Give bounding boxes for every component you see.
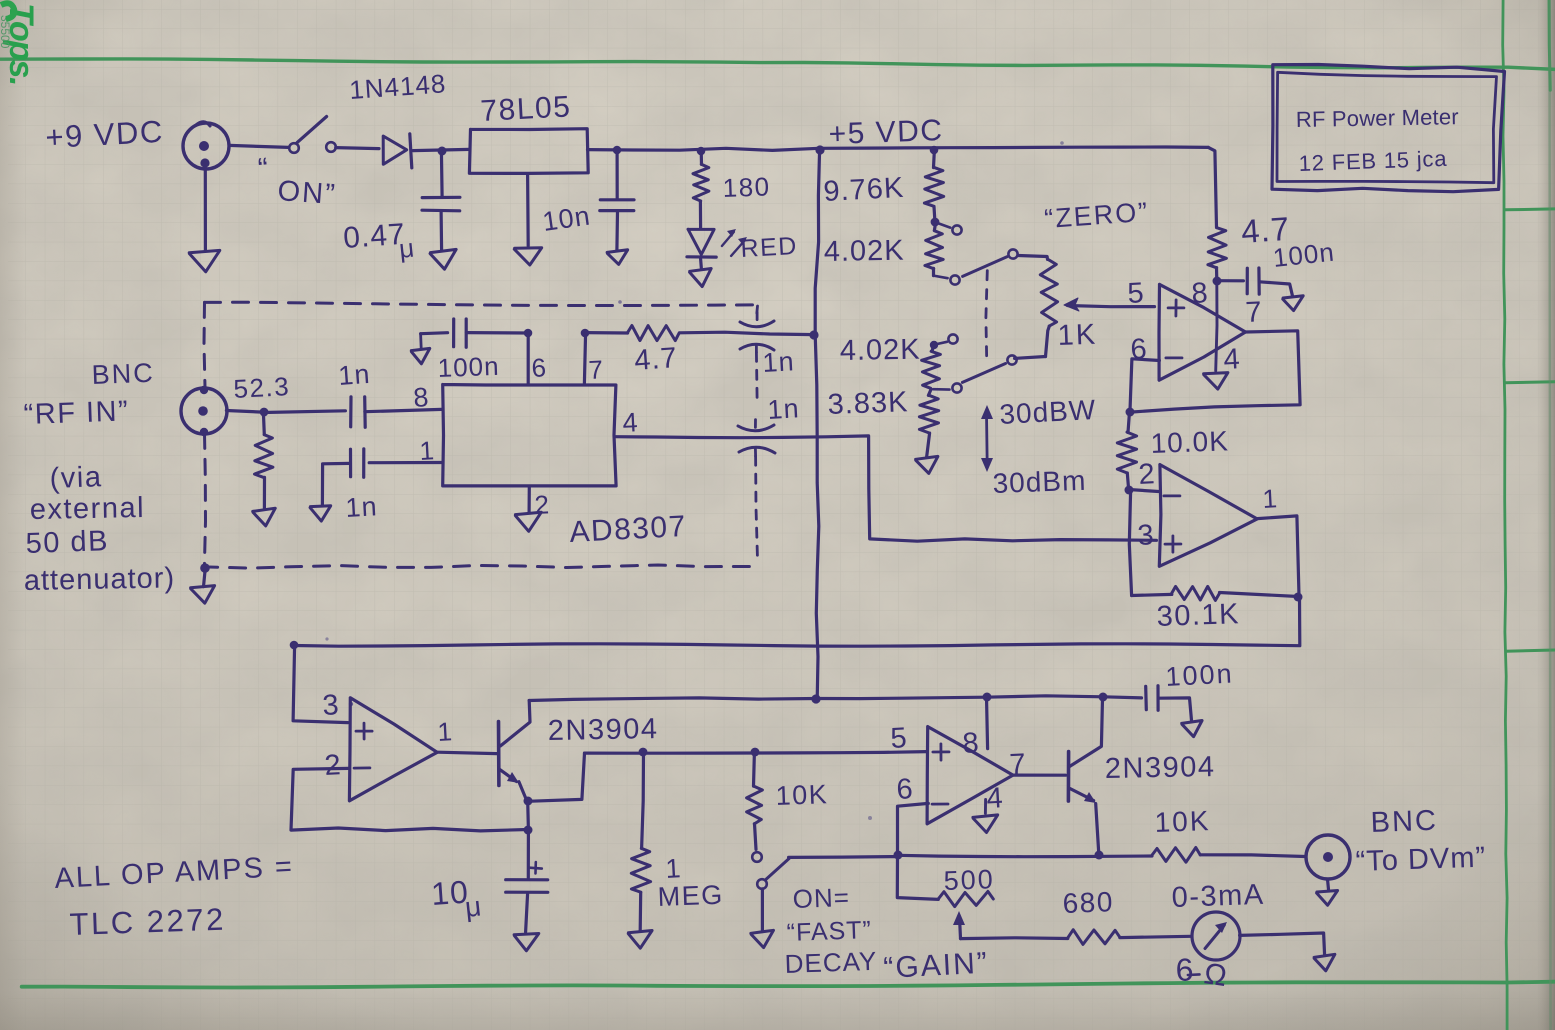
resistor R9 10.0K <box>1128 412 1130 433</box>
regulator U2 78L05 <box>469 129 588 174</box>
svg-text:μ: μ <box>397 232 416 264</box>
capacitor C3 1n <box>349 397 352 427</box>
shield ground <box>200 563 210 573</box>
svg-text:TLC 2272: TLC 2272 <box>69 902 226 942</box>
ground C4 <box>310 506 331 521</box>
svg-text:10K: 10K <box>1154 805 1211 838</box>
ground U3a pin4 <box>1204 373 1228 390</box>
pin8/pin4 vertical through U3a <box>1216 281 1217 371</box>
shield dashed box <box>205 302 758 305</box>
wire +5 to R8 <box>1208 147 1216 227</box>
wire S3 arm to U4b -input <box>789 855 896 859</box>
svg-text:2N3904: 2N3904 <box>548 713 659 747</box>
svg-text:4: 4 <box>1223 343 1242 376</box>
capacitor C4 1n pin1 <box>369 461 443 464</box>
ground after C1 <box>430 249 456 269</box>
svg-text:4: 4 <box>986 782 1005 815</box>
svg-text:78L05: 78L05 <box>480 90 573 128</box>
resistor R1 180 <box>697 147 706 156</box>
op-amp U3b <box>1159 465 1257 567</box>
svg-text:1: 1 <box>665 853 683 884</box>
svg-text:100n: 100n <box>1165 658 1235 692</box>
svg-text:(via: (via <box>49 461 103 495</box>
wire U4a out to Q1 base <box>438 752 497 753</box>
svg-text:ON”: ON” <box>277 175 338 211</box>
svg-text:+9 VDC: +9 VDC <box>45 114 165 155</box>
svg-text:ON=: ON= <box>792 882 850 914</box>
faint page edge line right <box>1550 0 1551 1030</box>
LED D2 RED <box>688 229 714 254</box>
wire Q1 collector to +5 <box>529 698 816 701</box>
switch S2b zero lower <box>948 334 957 343</box>
svg-text:BNC: BNC <box>91 358 155 390</box>
green right edge rule <box>1549 0 1550 90</box>
svg-text:8: 8 <box>412 382 430 413</box>
green right margin tick 1 <box>1505 207 1555 211</box>
pin4 output wire <box>615 436 1156 541</box>
ground S3 <box>751 930 774 947</box>
resistor R5 3.83K <box>928 390 931 396</box>
node Q1 emitter <box>524 797 533 806</box>
ground LED <box>690 269 712 287</box>
wire +5 to C8 <box>817 696 1142 699</box>
ground meter return <box>1314 954 1335 971</box>
capacitor C1 0.47u <box>440 151 444 197</box>
transistor Q1 2N3904 <box>497 722 501 786</box>
ground 78L05 <box>526 174 530 246</box>
wire BNC to switch <box>229 145 288 147</box>
svg-text:“To DVm”: “To DVm” <box>1355 841 1486 878</box>
resistor R13 10K <box>1152 848 1200 863</box>
resistor R7 4.7 <box>627 326 679 341</box>
ground U4b pin4 <box>984 800 987 814</box>
switch linkage dashed <box>986 271 987 365</box>
node divider tap A <box>931 218 940 227</box>
wiper VR1 <box>1067 306 1154 307</box>
green right vertical rule <box>1503 0 1507 1030</box>
svg-text:52.3: 52.3 <box>233 371 291 404</box>
connector J1 BNC +9VDC <box>183 123 229 169</box>
capacitor C8 100n <box>1144 686 1148 709</box>
wire R14 to meter <box>1120 936 1191 937</box>
svg-text:4.7: 4.7 <box>633 342 678 377</box>
wire +5 rail vertical <box>815 150 819 700</box>
svg-text:8: 8 <box>962 727 981 760</box>
resistor R6 52.3 <box>262 413 266 435</box>
wire U3a output feedback <box>1131 331 1301 412</box>
wire J2 to AD8307 <box>226 411 262 413</box>
green right margin tick 3 <box>1506 650 1555 651</box>
svg-text:50 dB: 50 dB <box>25 525 109 560</box>
svg-text:4: 4 <box>622 407 640 438</box>
ground R6 <box>253 508 276 526</box>
TOPS pad logo <box>0 3 40 85</box>
wire U4a -input feedback <box>291 768 527 831</box>
svg-text:7: 7 <box>1245 296 1264 329</box>
svg-text:attenuator): attenuator) <box>24 562 176 597</box>
wire U3b out down-left long <box>295 597 1300 646</box>
svg-text:10K: 10K <box>775 779 829 811</box>
svg-text:1: 1 <box>419 435 436 466</box>
node U3b -input <box>1125 486 1134 495</box>
diode D1 1N4148 <box>383 136 407 164</box>
ground C2 <box>607 250 628 265</box>
svg-text:2N3904: 2N3904 <box>1105 751 1216 785</box>
svg-text:2: 2 <box>534 489 551 520</box>
resistor R2 9.76K <box>930 146 939 155</box>
svg-text:1K: 1K <box>1057 319 1098 352</box>
svg-text:MEG: MEG <box>657 880 724 912</box>
svg-text:BNC: BNC <box>1370 805 1438 839</box>
svg-text:8: 8 <box>1191 277 1210 310</box>
op-amp U4b <box>927 727 1013 824</box>
wire switch to diode <box>336 148 379 149</box>
svg-text:4.02K: 4.02K <box>824 235 905 268</box>
wire emitter rail right <box>585 752 927 754</box>
svg-text:9.76K: 9.76K <box>823 172 905 208</box>
switch S1 ON <box>289 143 299 153</box>
wire diode to 78L05 <box>413 149 470 150</box>
ground pin2 <box>527 486 530 512</box>
svg-text:2: 2 <box>324 749 343 782</box>
svg-text:3: 3 <box>1137 519 1156 552</box>
capacitor C6 100n <box>1217 279 1244 282</box>
svg-text:100n: 100n <box>437 351 500 383</box>
capacitor C2 10n <box>613 146 622 155</box>
svg-text:1n: 1n <box>337 359 371 391</box>
switch S3 fast decay <box>752 852 762 862</box>
wire C3 to pin8 <box>365 409 442 411</box>
switch S2a zero upper <box>934 276 948 279</box>
svg-text:6: 6 <box>531 352 548 383</box>
green top margin rule <box>0 59 1555 70</box>
connector J3 BNC out <box>1306 835 1350 879</box>
svg-text:6: 6 <box>896 773 915 806</box>
node pin8 <box>1213 277 1222 286</box>
svg-text:AD8307: AD8307 <box>569 510 688 549</box>
resistor R11 1MEG <box>639 748 648 757</box>
capacitor C5 100n <box>421 333 448 334</box>
svg-text:DECAY: DECAY <box>784 946 878 979</box>
op-amp U4a <box>349 698 437 801</box>
wire pins 6,7 to +5 filter <box>524 329 533 338</box>
op-amp U3a <box>1159 284 1246 380</box>
svg-text:μ: μ <box>463 890 483 923</box>
wire 78L05 output rail <box>588 147 1209 150</box>
svg-text:external: external <box>30 492 146 526</box>
capacitor C7 10u <box>526 801 530 829</box>
resistor R8 4.7 <box>1208 228 1227 268</box>
wire to U4a +input <box>293 646 348 723</box>
wire U3b output <box>1257 516 1299 596</box>
wire U4b -input <box>898 803 929 855</box>
svg-text:30dBW: 30dBW <box>999 394 1097 430</box>
ground divider <box>916 456 938 473</box>
ground J1 <box>204 168 207 251</box>
svg-text:180: 180 <box>722 171 771 203</box>
resistor R14 680 <box>1068 930 1120 945</box>
wire U3a -input <box>1130 359 1159 411</box>
decoupling caps 1n chain <box>756 306 757 318</box>
wire wiper to R14 <box>961 936 1068 940</box>
wire U4b out to Q2 <box>1013 773 1065 776</box>
green bottom margin rule <box>22 982 1555 988</box>
svg-text:RED: RED <box>740 232 799 263</box>
title box <box>1272 65 1505 192</box>
svg-text:+5 VDC: +5 VDC <box>828 114 944 151</box>
svg-text:1: 1 <box>1262 483 1279 514</box>
IC U1 AD8307 box <box>443 385 616 486</box>
svg-text:500: 500 <box>943 864 995 896</box>
svg-text:6: 6 <box>1175 951 1195 988</box>
ground C7 <box>514 934 539 951</box>
potentiometer VR1 1K <box>1040 260 1057 326</box>
svg-text:10.0K: 10.0K <box>1150 425 1229 459</box>
svg-text:“RF IN”: “RF IN” <box>23 395 130 431</box>
svg-text:680: 680 <box>1062 886 1114 919</box>
ground R11 <box>628 931 652 949</box>
transistor Q2 2N3904 <box>1067 752 1071 802</box>
svg-text:5: 5 <box>890 722 909 755</box>
svg-text:1: 1 <box>437 716 454 747</box>
svg-text:2: 2 <box>1138 458 1157 491</box>
svg-text:3.83K: 3.83K <box>827 386 909 421</box>
svg-text:7: 7 <box>588 354 605 385</box>
pin8 wire <box>983 693 992 702</box>
resistor R4 4.02K lower <box>932 346 933 351</box>
ground C8 <box>1182 721 1202 737</box>
output wire with R13 <box>1095 851 1104 860</box>
svg-text:1n: 1n <box>762 346 796 378</box>
svg-text:12 FEB 15 jca: 12 FEB 15 jca <box>1298 146 1447 176</box>
svg-text:5: 5 <box>1127 277 1146 310</box>
svg-text:1n: 1n <box>767 393 801 425</box>
svg-text:4.02K: 4.02K <box>840 334 921 367</box>
resistor R3 4.02K <box>934 223 935 230</box>
green right margin tick 2 <box>1505 382 1555 383</box>
feedback wire with R10 <box>1132 594 1172 595</box>
svg-text:3: 3 <box>322 689 341 722</box>
svg-text:30dBm: 30dBm <box>992 465 1087 499</box>
pen specks <box>349 702 353 706</box>
svg-text:1n: 1n <box>345 491 379 523</box>
resistor R12 10K decay <box>751 748 760 757</box>
svg-text:“GAIN”: “GAIN” <box>883 947 990 985</box>
svg-text:RF Power Meter: RF Power Meter <box>1296 104 1459 132</box>
annotation 30dBW/30dBm arrow <box>985 414 989 464</box>
svg-text:0-3mA: 0-3mA <box>1171 879 1265 914</box>
wire meter to ground <box>1240 933 1325 955</box>
potentiometer VR2 500 gain <box>897 855 938 899</box>
svg-text:Ω: Ω <box>1202 957 1230 993</box>
connector J2 BNC RF IN <box>181 388 227 434</box>
svg-text:30.1K: 30.1K <box>1156 598 1240 633</box>
svg-text:“FAST”: “FAST” <box>786 916 872 947</box>
meter M1 0-3mA <box>1192 912 1240 960</box>
